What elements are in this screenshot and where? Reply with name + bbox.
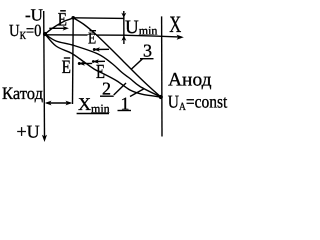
- svg-text:Umin: Umin: [125, 17, 157, 38]
- svg-text:X: X: [169, 12, 181, 38]
- svg-text:E: E: [58, 10, 67, 31]
- svg-text:E: E: [62, 57, 71, 78]
- svg-text:UА=const: UА=const: [168, 91, 227, 113]
- svg-text:1: 1: [121, 94, 130, 114]
- svg-text:+U: +U: [17, 121, 40, 141]
- svg-text:Анод: Анод: [168, 69, 212, 90]
- svg-text:3: 3: [143, 41, 152, 61]
- svg-text:UК=0: UК=0: [9, 21, 42, 42]
- svg-text:Катод: Катод: [2, 83, 43, 103]
- svg-text:2: 2: [102, 79, 111, 99]
